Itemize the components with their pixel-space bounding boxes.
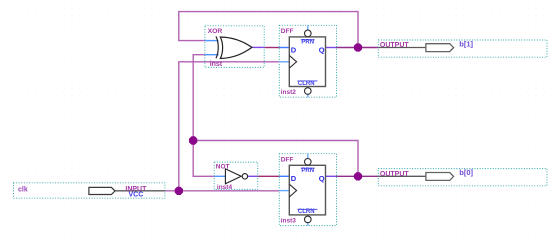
junction J4 on clk net xyxy=(175,187,183,195)
XOR input stub A xyxy=(205,40,219,42)
D flip-flop inst3 xyxy=(279,154,336,226)
NOT input stub xyxy=(214,175,225,177)
svg-text:inst3: inst3 xyxy=(281,217,297,224)
clock input stub xyxy=(279,190,289,192)
junction J2 on q0 feedback net xyxy=(189,136,197,144)
svg-text:OUTPUT: OUTPUT xyxy=(380,171,410,178)
junction J3 on b[0] net xyxy=(354,172,362,180)
clock input stub xyxy=(279,61,289,63)
DFF body rectangle xyxy=(289,37,325,87)
PRN stub xyxy=(307,154,309,159)
wire: q1 feedback loop (junction to XOR top input) xyxy=(179,12,358,48)
svg-text:Q: Q xyxy=(319,46,325,55)
svg-text:PRN: PRN xyxy=(301,168,314,174)
D input stub xyxy=(279,47,289,49)
wire: clk net (input pin to both flip-flop clocks) xyxy=(165,62,279,191)
svg-text:VCC: VCC xyxy=(129,192,144,199)
svg-text:inst: inst xyxy=(210,61,223,68)
junction J1 on b[1] net xyxy=(354,43,362,51)
CLRN bubble xyxy=(305,216,312,223)
XOR output stub xyxy=(252,46,264,48)
DFF body rectangle xyxy=(289,165,325,215)
NOT triangle xyxy=(225,169,241,184)
output pin b[0] xyxy=(378,168,547,186)
PRN stub xyxy=(307,25,309,30)
svg-text:inst2: inst2 xyxy=(281,89,297,96)
CLRN bubble xyxy=(305,88,312,95)
svg-text:clk: clk xyxy=(18,186,28,193)
svg-text:PRN: PRN xyxy=(301,40,314,46)
Q output stub xyxy=(326,47,337,49)
NOT output stub xyxy=(248,175,258,177)
svg-text:CLRN: CLRN xyxy=(298,81,315,87)
svg-text:NOT: NOT xyxy=(216,163,230,170)
wire: NOT output to inst3 D xyxy=(258,175,280,177)
svg-text:DFF: DFF xyxy=(281,28,294,35)
XOR input stub B xyxy=(205,54,219,56)
D flip-flop inst2 xyxy=(279,25,336,97)
wire: XOR output to inst2 D xyxy=(264,47,279,49)
svg-text:DFF: DFF xyxy=(281,156,294,163)
PRN bubble xyxy=(305,30,312,37)
svg-text:b[1]: b[1] xyxy=(459,39,473,48)
svg-text:CLRN: CLRN xyxy=(298,209,315,215)
input pin clk xyxy=(14,183,165,199)
NOT gate inst4 xyxy=(214,162,258,191)
svg-text:XOR: XOR xyxy=(208,28,223,35)
svg-text:D: D xyxy=(291,174,297,183)
wire: q0 feedback (junction up, across, to XOR bottom input and down to NOT input) xyxy=(193,55,358,177)
svg-text:Q: Q xyxy=(319,174,325,183)
D input stub xyxy=(279,175,289,177)
clock triangle xyxy=(289,184,296,197)
CLRN stub xyxy=(307,94,309,97)
output pin b[1] xyxy=(378,39,547,57)
PRN bubble xyxy=(305,159,312,166)
XOR gate inst xyxy=(205,26,264,68)
svg-text:D: D xyxy=(291,46,297,55)
wire: inst2 Q to OUTPUT b[1] xyxy=(337,47,379,49)
svg-text:inst4: inst4 xyxy=(217,184,233,191)
clock triangle xyxy=(289,55,296,68)
XOR body xyxy=(216,36,218,58)
wire: inst3 Q to OUTPUT b[0] xyxy=(337,175,379,177)
svg-text:OUTPUT: OUTPUT xyxy=(380,42,410,49)
Q output stub xyxy=(326,175,337,177)
svg-text:b[0]: b[0] xyxy=(459,168,473,177)
CLRN stub xyxy=(307,223,309,226)
NOT bubble xyxy=(242,174,247,179)
